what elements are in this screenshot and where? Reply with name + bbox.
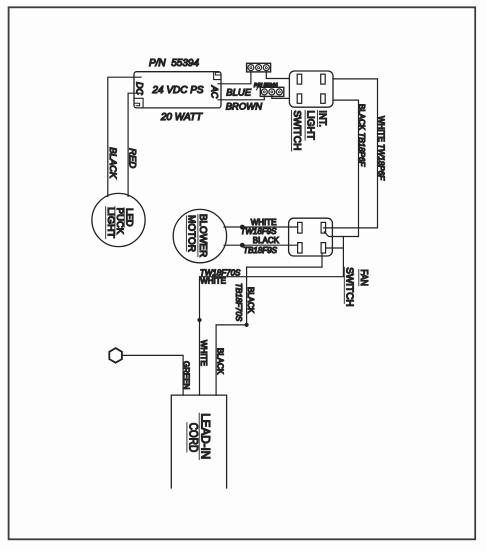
svg-text:P/N 55394: P/N 55394 (149, 58, 199, 69)
label TW18F70S WHITE horizontal (200, 268, 241, 285)
svg-text:TB18F70S: TB18F70S (234, 283, 243, 322)
svg-text:BLACK: BLACK (216, 348, 225, 375)
wire BLACK PS to LED puck light (108, 77, 141, 196)
lead-in cord (171, 395, 226, 488)
svg-text:CORD: CORD (186, 423, 198, 453)
svg-text:BLUE: BLUE (226, 88, 251, 99)
svg-text:GREEN: GREEN (182, 361, 191, 390)
svg-text:INT.: INT. (317, 110, 328, 127)
wire BLACK TB18P6F int light switch to fan switch (324, 100, 358, 236)
svg-text:RED: RED (127, 148, 138, 168)
label INT. LIGHT SWITCH (291, 110, 328, 151)
svg-text:FAN: FAN (358, 269, 369, 286)
fan switch S2 (289, 218, 333, 256)
power supply PS1 24VDC (134, 72, 221, 108)
wire BLACK TB18F9S blower to fan switch (224, 244, 298, 246)
svg-text:BLACK: BLACK (107, 147, 118, 179)
svg-text:WHITE TW18P6F: WHITE TW18P6F (377, 116, 386, 181)
wire connector J1 to int light switch (266, 72, 289, 79)
connector J1 (3-pin) (247, 63, 271, 72)
svg-text:LIGHT: LIGHT (304, 110, 315, 139)
svg-text:BLACK: BLACK (253, 236, 280, 245)
svg-text:AC: AC (209, 85, 219, 99)
svg-text:WHITE: WHITE (200, 276, 226, 285)
svg-text:BLOWER: BLOWER (197, 214, 208, 257)
blower motor M1 (173, 209, 226, 262)
label WHITE TW18F9S (240, 218, 277, 236)
junction splice white motor wire (240, 225, 245, 230)
connector J2 P/N 55244 (3-pin) (257, 86, 284, 97)
wire GREEN ground lug to lead-in cord (122, 355, 183, 395)
svg-text:BROWN: BROWN (226, 101, 263, 112)
label FAN SWITCH (344, 267, 370, 306)
svg-text:WHITE: WHITE (199, 340, 208, 366)
wire WHITE TW18F70S fan switch to lead-in cord (200, 237, 344, 396)
svg-text:MOTOR: MOTOR (186, 215, 197, 252)
wire WHITE TW18F9S blower to fan switch (224, 226, 298, 228)
wire BLUE PS to connector J1 (218, 72, 251, 84)
svg-text:BLACK: BLACK (246, 287, 255, 314)
junction splice black cord wire (245, 323, 249, 327)
wire RED PS to LED puck light (128, 93, 141, 196)
svg-text:BLACK TB18P6F: BLACK TB18P6F (357, 104, 366, 167)
svg-text:SWITCH: SWITCH (344, 267, 355, 306)
wire WHITE TW18P6F int light switch to fan switch (324, 79, 378, 228)
svg-text:TB18F9S: TB18F9S (243, 246, 277, 255)
junction splice black motor wire (240, 243, 245, 248)
wire BROWN PS to connector J2 (218, 96, 264, 99)
svg-text:LEAD-IN: LEAD-IN (199, 413, 211, 459)
ground lug hex (109, 348, 122, 363)
svg-text:24 VDC PS: 24 VDC PS (151, 85, 203, 96)
label BLACK TB18F9S (243, 236, 279, 255)
junction splice white cord wire (197, 318, 201, 322)
wire connector J2 to int light switch (272, 96, 290, 98)
svg-text:LIGHT: LIGHT (105, 207, 116, 238)
label BLACK TB18F70S vertical pair (234, 283, 255, 322)
svg-text:SWITCH: SWITCH (291, 110, 302, 150)
svg-text:P/N 55244: P/N 55244 (254, 83, 278, 89)
wire BLACK TB18F70S fan switch to lead-in cord (216, 253, 322, 395)
int light switch S1 (289, 71, 333, 107)
svg-text:20 WATT: 20 WATT (160, 112, 203, 123)
svg-text:TW18F9S: TW18F9S (240, 227, 277, 236)
LED puck light (92, 193, 145, 246)
